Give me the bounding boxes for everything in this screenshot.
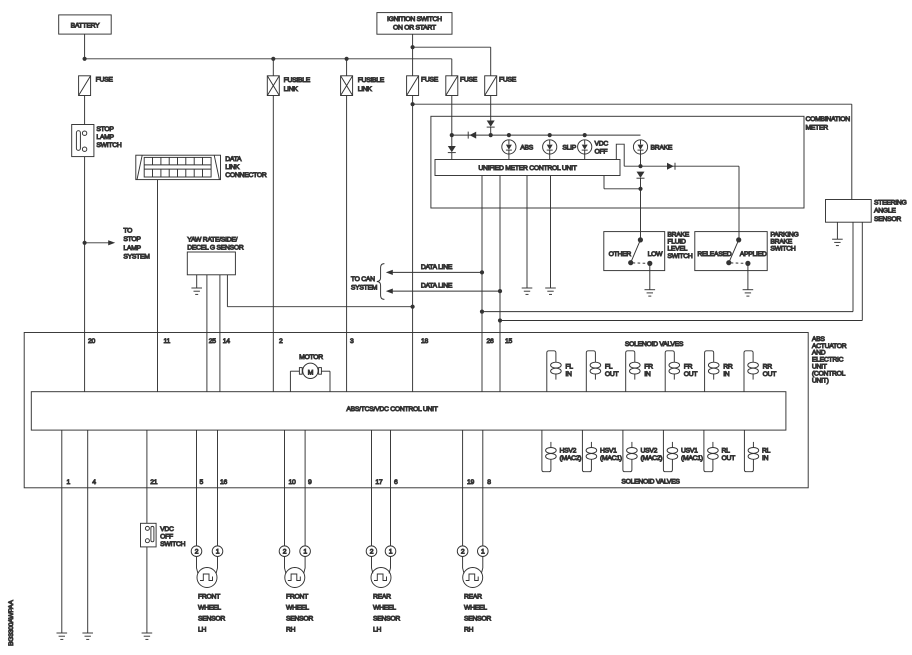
svg-text:LAMP: LAMP [123, 245, 141, 252]
svg-text:RH: RH [464, 626, 474, 633]
wire fuse F4 into combination meter [490, 96, 492, 121]
label motor [299, 354, 323, 361]
svg-text:21: 21 [150, 479, 158, 486]
parking brake switch SW4 [695, 232, 767, 271]
node SLIP lamp tap [548, 133, 552, 137]
svg-text:OFF: OFF [595, 148, 608, 155]
wire diode D5 to brake fluid switch [640, 179, 642, 240]
svg-text:IGNITION SWITCH: IGNITION SWITCH [387, 16, 442, 23]
svg-text:1: 1 [303, 549, 307, 556]
svg-text:1: 1 [389, 549, 393, 556]
ground yaw sensor [191, 288, 202, 294]
svg-text:WHEEL: WHEEL [373, 604, 396, 611]
svg-text:1: 1 [216, 549, 220, 556]
ground pin 1 [57, 633, 68, 639]
wire lamp rail [452, 134, 641, 136]
svg-text:FR: FR [684, 364, 693, 371]
svg-text:AND: AND [812, 350, 826, 357]
svg-text:RELEASED: RELEASED [697, 251, 731, 258]
solenoid valve RR OUT [744, 351, 776, 392]
svg-text:RR: RR [723, 364, 733, 371]
svg-text:1: 1 [67, 479, 71, 486]
svg-text:3: 3 [350, 338, 354, 345]
svg-text:HSV1: HSV1 [600, 447, 617, 454]
solenoid valve HSV2 (MAC2) [542, 430, 581, 472]
label parking brake switch [770, 231, 798, 252]
svg-text:FLUID: FLUID [667, 238, 686, 245]
ground brake fluid level switch [645, 290, 656, 296]
svg-text:IN: IN [723, 371, 730, 378]
svg-text:FL: FL [565, 364, 573, 371]
solenoid valve USV2 (MAC2) [623, 430, 662, 472]
label steering angle sensor [874, 199, 907, 223]
wire unified meter control unit to brake lamp node [616, 144, 624, 166]
svg-text:OTHER: OTHER [609, 251, 632, 258]
ground combination meter 1 [522, 288, 533, 294]
svg-text:11: 11 [164, 338, 171, 345]
indicator lamp VDC OFF [578, 140, 609, 160]
svg-text:(CONTROL: (CONTROL [812, 371, 846, 378]
wire brake lamp node to parking brake switch [624, 166, 739, 240]
label yaw rate sensor [187, 237, 244, 252]
front wheel sensor LH B2 [191, 430, 225, 633]
wire fuse F3 into combination meter [451, 96, 453, 147]
ground parking brake switch [743, 290, 754, 296]
wire data link connector to pin 11 [157, 180, 159, 392]
svg-text:SWITCH: SWITCH [667, 253, 692, 260]
wire unified meter control unit pin 15 [499, 176, 501, 392]
svg-text:ON OR START: ON OR START [393, 24, 436, 31]
svg-text:SWITCH: SWITCH [96, 142, 121, 149]
svg-text:REAR: REAR [373, 593, 391, 600]
svg-text:FUSE: FUSE [460, 77, 478, 84]
svg-text:FUSE: FUSE [499, 77, 517, 84]
svg-text:FRONT: FRONT [286, 593, 308, 600]
svg-text:M: M [308, 370, 314, 377]
svg-text:WHEEL: WHEEL [286, 604, 309, 611]
svg-text:LOW: LOW [648, 251, 664, 258]
wire fuse F2 to steering angle sensor [413, 104, 852, 199]
svg-text:HSV2: HSV2 [560, 447, 577, 454]
svg-text:WHEEL: WHEEL [464, 604, 487, 611]
diode D1 [448, 146, 456, 153]
svg-text:TO: TO [123, 227, 132, 234]
front wheel sensor RH B3 [279, 430, 313, 633]
wire unified meter control unit brake fluid sense [604, 176, 641, 189]
svg-text:SENSOR: SENSOR [286, 615, 313, 622]
node CAN-H junction [480, 310, 484, 314]
svg-text:1: 1 [481, 549, 485, 556]
wire bus to fuse F3 [451, 59, 453, 76]
svg-text:4: 4 [92, 479, 96, 486]
diode D2 [487, 121, 495, 128]
solenoid valve HSV1 (MAC1) [582, 430, 621, 472]
svg-text:TO CAN: TO CAN [351, 276, 375, 283]
fuse F4 ignition [485, 76, 517, 96]
indicator lamp ABS [502, 140, 534, 160]
brake fluid level switch SW3 [604, 232, 665, 271]
wire pin 1 to ground [61, 430, 63, 633]
combination meter box [431, 116, 804, 208]
svg-text:FUSE: FUSE [96, 77, 114, 84]
node VDC OFF lamp tap [583, 133, 587, 137]
node fuse F3 lamp rail junction [450, 133, 454, 137]
svg-text:LINK: LINK [358, 86, 373, 93]
svg-text:20: 20 [88, 338, 96, 345]
svg-text:IN: IN [565, 371, 572, 378]
svg-text:25: 25 [209, 338, 217, 345]
svg-text:WHEEL: WHEEL [198, 604, 221, 611]
wire yaw sensor to pin 14 [219, 275, 221, 392]
ABS/TCS/VDC control unit U2 [31, 392, 786, 430]
svg-text:BRAKE: BRAKE [667, 231, 689, 238]
indicator lamp BRAKE [633, 140, 672, 154]
fusible link FL1 [267, 76, 310, 96]
stop lamp switch SW2 [72, 125, 122, 157]
label to CAN system [351, 276, 378, 292]
svg-text:BG3300AWPAA: BG3300AWPAA [8, 600, 15, 646]
node data line 2 tap [498, 289, 502, 293]
svg-text:18: 18 [421, 338, 429, 345]
label brake fluid level switch [667, 231, 692, 260]
svg-text:2: 2 [279, 338, 283, 345]
ground combination meter 2 [545, 288, 556, 294]
wire steering angle sensor ground stem [836, 222, 838, 239]
wire ignition switch down [412, 34, 414, 76]
battery B1 [59, 15, 111, 34]
solenoid valve RL OUT [704, 430, 735, 472]
svg-text:FUSIBLE: FUSIBLE [284, 77, 311, 84]
svg-text:SWITCH: SWITCH [770, 246, 795, 253]
ground VDC OFF switch [142, 633, 153, 639]
svg-text:8: 8 [487, 479, 491, 486]
wire data line 1 [386, 270, 482, 275]
svg-text:OFF: OFF [160, 534, 173, 541]
fuse F1 battery [79, 76, 114, 96]
label solenoid valves top [625, 341, 684, 348]
node bus to fusible link 2 [345, 57, 349, 61]
svg-text:FR: FR [644, 364, 653, 371]
wire fusible link FL1 to pin 2 [272, 96, 274, 392]
svg-text:SWITCH: SWITCH [160, 541, 185, 548]
svg-text:RL: RL [762, 447, 771, 454]
svg-text:SENSOR: SENSOR [198, 615, 225, 622]
svg-text:SYSTEM: SYSTEM [123, 253, 150, 260]
label solenoid valves bottom [621, 479, 680, 486]
svg-text:UNIT): UNIT) [812, 378, 829, 385]
svg-text:LH: LH [198, 626, 207, 633]
svg-text:USV1: USV1 [681, 447, 698, 454]
svg-text:STOP: STOP [123, 236, 141, 243]
label ABS actuator [812, 336, 847, 385]
wire steering angle sensor CAN-H [482, 222, 853, 311]
wire parking brake switch ground [747, 263, 749, 289]
wire data line 2 [386, 289, 500, 294]
svg-text:LH: LH [373, 626, 382, 633]
wire VDC OFF switch to ground [146, 547, 148, 633]
node brake lamp junction [638, 164, 642, 168]
svg-text:REAR: REAR [464, 593, 482, 600]
svg-text:2: 2 [370, 549, 374, 556]
svg-text:LAMP: LAMP [96, 134, 114, 141]
label to stop lamp system [123, 227, 150, 260]
svg-text:OUT: OUT [763, 371, 777, 378]
svg-text:METER: METER [806, 125, 829, 132]
svg-text:SOLENOID VALVES: SOLENOID VALVES [621, 479, 680, 486]
svg-text:YAW RATE/SIDE/: YAW RATE/SIDE/ [187, 237, 237, 244]
svg-text:RR: RR [763, 364, 773, 371]
figure code AAPWA0033GB [8, 600, 15, 646]
diode D4 [667, 163, 675, 170]
label data line 2 [421, 283, 453, 290]
wire battery bus [85, 58, 452, 60]
node brake fluid sense junction [638, 187, 642, 191]
svg-text:19: 19 [467, 479, 475, 486]
solenoid valve RR IN [705, 351, 733, 392]
svg-text:APPLIED: APPLIED [740, 251, 767, 258]
svg-text:ABS: ABS [812, 336, 826, 343]
svg-text:UNIFIED METER CONTROL UNIT: UNIFIED METER CONTROL UNIT [478, 165, 576, 172]
svg-text:FUSE: FUSE [421, 77, 439, 84]
wire steering angle sensor CAN-L [500, 222, 862, 320]
svg-text:BRAKE: BRAKE [770, 238, 792, 245]
svg-text:PARKING: PARKING [770, 231, 798, 238]
svg-text:BATTERY: BATTERY [71, 22, 101, 29]
solenoid valve USV1 (MAC1) [663, 430, 702, 472]
svg-text:RH: RH [286, 626, 296, 633]
wire yaw sensor ground stem [196, 275, 198, 288]
indicator lamp SLIP [543, 140, 577, 160]
svg-text:COMBINATION: COMBINATION [806, 116, 851, 123]
wire diode D1 to unified meter control unit [451, 153, 453, 160]
ABS actuator and electric unit box [24, 333, 808, 488]
solenoid valve FL IN [547, 351, 573, 392]
svg-text:USV2: USV2 [641, 447, 658, 454]
wire unified meter control unit ground 1 [526, 176, 528, 289]
diode D3 [468, 132, 476, 139]
wire yaw sensor to pin 25 [206, 275, 208, 392]
pin numbers top row [88, 338, 513, 345]
svg-text:OUT: OUT [605, 371, 619, 378]
svg-text:10: 10 [289, 479, 297, 486]
svg-text:LEVEL: LEVEL [667, 246, 687, 253]
node CAN-L junction [498, 318, 502, 322]
wire ignition branch to fuse 3 [413, 47, 491, 76]
svg-text:FL: FL [605, 364, 613, 371]
svg-text:OUT: OUT [722, 455, 736, 462]
wire bus to fusible link FL2 [346, 59, 348, 76]
svg-text:(MAC2): (MAC2) [641, 455, 663, 462]
wire pin 4 to ground [87, 430, 89, 633]
svg-text:(MAC1): (MAC1) [681, 455, 703, 462]
rear wheel sensor LH B4 [366, 430, 400, 633]
svg-text:LINK: LINK [225, 164, 240, 171]
node ABS lamp tap [507, 133, 511, 137]
unified meter control unit U1 [435, 160, 620, 176]
svg-text:9: 9 [308, 479, 312, 486]
wire fuse F1 to stop lamp switch [84, 96, 86, 125]
wire stop lamp switch to pin 20 [84, 157, 86, 392]
wire bus to fusible link FL1 [272, 59, 274, 76]
svg-text:15: 15 [505, 338, 513, 345]
svg-text:IN: IN [644, 371, 651, 378]
ignition switch SW1 [377, 13, 452, 35]
wire fusible link FL2 to pin 3 [346, 96, 348, 392]
svg-text:14: 14 [223, 338, 231, 345]
svg-text:2: 2 [195, 549, 199, 556]
svg-text:DATA LINE: DATA LINE [421, 264, 453, 271]
svg-text:SYSTEM: SYSTEM [351, 285, 378, 292]
fuse F3 battery [446, 76, 478, 96]
ground steering angle sensor [832, 239, 843, 245]
VDC OFF switch SW5 [141, 523, 186, 548]
fusible link FL2 [341, 76, 385, 96]
svg-text:DATA: DATA [225, 156, 242, 163]
svg-text:2: 2 [461, 549, 465, 556]
svg-text:BRAKE: BRAKE [651, 144, 673, 151]
yaw rate/side/decel G sensor G1 [187, 252, 235, 275]
data link connector X1 [136, 155, 267, 179]
svg-text:17: 17 [375, 479, 383, 486]
svg-text:OUT: OUT [684, 371, 698, 378]
wire yaw sensor power [227, 275, 412, 307]
svg-text:STOP: STOP [96, 126, 114, 133]
svg-text:DECEL G SENSOR: DECEL G SENSOR [187, 245, 244, 252]
wire fuse F2 to pin 18 [412, 96, 414, 392]
svg-text:STEERING: STEERING [874, 199, 907, 206]
node battery bus junction [83, 57, 87, 61]
svg-text:LINK: LINK [284, 86, 299, 93]
wire brake fluid level switch ground [649, 263, 651, 289]
node yaw power junction [411, 305, 415, 309]
svg-text:5: 5 [200, 479, 204, 486]
wire battery to bus [84, 34, 86, 59]
wire unified meter control unit ground 2 [550, 176, 552, 289]
solenoid valve RL IN [744, 430, 770, 472]
svg-text:6: 6 [394, 479, 398, 486]
svg-text:DATA LINE: DATA LINE [421, 283, 453, 290]
pin numbers bottom row [67, 479, 492, 486]
svg-text:SLIP: SLIP [562, 144, 576, 151]
fuse F2 ignition [407, 76, 439, 96]
motor M1 [290, 363, 330, 392]
wire arrow to stop lamp system [85, 240, 116, 245]
svg-text:IN: IN [762, 455, 769, 462]
svg-text:FUSIBLE: FUSIBLE [358, 77, 385, 84]
svg-text:VDC: VDC [595, 140, 609, 147]
svg-text:SENSOR: SENSOR [874, 216, 901, 223]
solenoid valve FR IN [626, 351, 653, 392]
wire unified meter control unit pin 26 [481, 176, 483, 392]
svg-text:CONNECTOR: CONNECTOR [225, 172, 267, 179]
svg-text:ABS: ABS [520, 144, 534, 151]
label data line 1 [421, 264, 453, 271]
node diode D2 junction [489, 133, 493, 137]
node fuse F2 output junction [411, 102, 415, 106]
steering angle sensor G2 [826, 200, 872, 223]
svg-text:(MAC1): (MAC1) [600, 455, 622, 462]
ground pin 4 [82, 633, 93, 639]
svg-text:FRONT: FRONT [198, 593, 220, 600]
svg-text:MOTOR: MOTOR [299, 354, 323, 361]
svg-text:SENSOR: SENSOR [373, 615, 400, 622]
svg-text:ANGLE: ANGLE [874, 208, 896, 215]
svg-text:(MAC2): (MAC2) [560, 455, 582, 462]
svg-text:ABS/TCS/VDC CONTROL UNIT: ABS/TCS/VDC CONTROL UNIT [346, 406, 437, 413]
svg-text:26: 26 [487, 338, 495, 345]
node data line 1 tap [480, 270, 484, 274]
diode D5 [637, 172, 645, 179]
solenoid valve FR OUT [665, 351, 697, 392]
svg-text:SENSOR: SENSOR [464, 615, 491, 622]
wire diode D2 to lamp rail [490, 127, 492, 135]
wire pin 21 to VDC OFF switch [146, 430, 148, 523]
wire brake lamp down [640, 154, 642, 166]
solenoid valve FL OUT [586, 351, 618, 392]
svg-text:2: 2 [283, 549, 287, 556]
node to-stop-lamp tap [83, 241, 87, 245]
svg-text:RL: RL [722, 447, 731, 454]
node ignition branch junction [411, 45, 415, 49]
rear wheel sensor RH B5 [457, 430, 491, 633]
label combination meter [806, 116, 851, 131]
brace to CAN system [377, 264, 385, 300]
node bus to fusible link 1 [271, 57, 275, 61]
svg-text:16: 16 [220, 479, 228, 486]
svg-text:VDC: VDC [160, 526, 174, 533]
svg-text:SOLENOID VALVES: SOLENOID VALVES [625, 341, 684, 348]
